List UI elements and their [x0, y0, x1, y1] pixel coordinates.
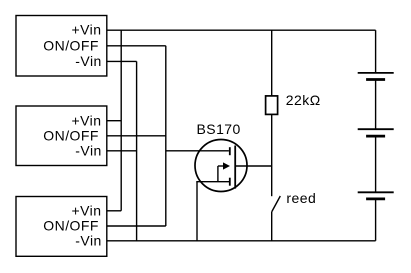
svg-text:+Vin: +Vin	[72, 22, 102, 38]
svg-text:-Vin: -Vin	[75, 53, 101, 69]
svg-text:reed: reed	[286, 190, 316, 206]
svg-text:-Vin: -Vin	[75, 233, 101, 249]
svg-text:ON/OFF: ON/OFF	[43, 218, 99, 234]
svg-text:-Vin: -Vin	[75, 142, 101, 158]
svg-text:ON/OFF: ON/OFF	[43, 127, 99, 143]
svg-text:ON/OFF: ON/OFF	[43, 37, 99, 53]
svg-text:+Vin: +Vin	[72, 112, 102, 128]
svg-text:22kΩ: 22kΩ	[286, 92, 321, 108]
svg-text:+Vin: +Vin	[72, 202, 102, 218]
svg-text:BS170: BS170	[197, 121, 241, 137]
